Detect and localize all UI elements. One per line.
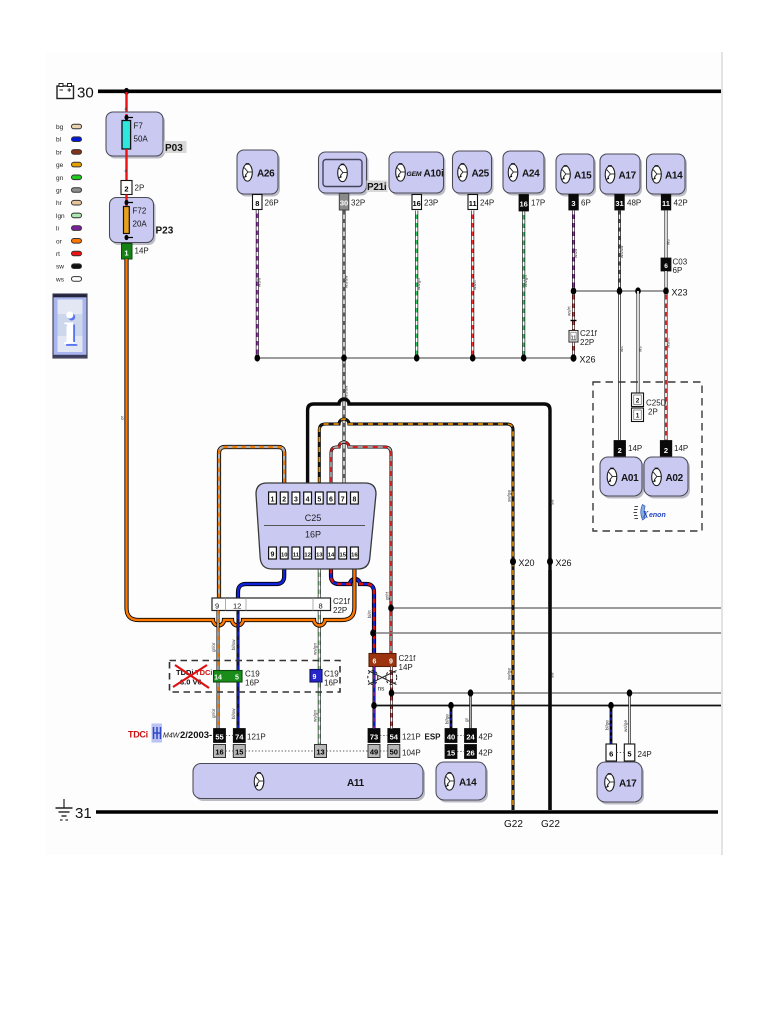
svg-text:GEM: GEM [407, 171, 422, 178]
svg-text:13: 13 [316, 748, 324, 757]
svg-text:3: 3 [294, 497, 298, 504]
component A11 [193, 764, 425, 802]
svg-text:ws/ge: ws/ge [623, 720, 628, 732]
A11 pin 55 [214, 729, 226, 743]
connector C25D 2P [632, 393, 667, 422]
pin 11 42P of A14 [661, 195, 687, 211]
wire sw/ge overlay vertical [512, 570, 515, 810]
svg-text:ws/li: ws/li [257, 278, 262, 287]
wire ws/sw P21i drop to C25 pin7 [343, 211, 348, 493]
svg-text:C25D: C25D [646, 399, 667, 408]
svg-text:17P: 17P [531, 199, 545, 208]
connector C25 16P body [256, 483, 376, 569]
svg-text:74: 74 [235, 733, 244, 742]
A14 pin 24 [457, 689, 493, 742]
svg-text:a: a [125, 106, 128, 111]
C25 pin 9 [269, 547, 277, 559]
legend color sw [56, 264, 82, 271]
svg-text:ws/gn: ws/gn [523, 275, 528, 287]
svg-text:14: 14 [214, 675, 222, 682]
svg-text:gr/or: gr/or [211, 642, 216, 652]
svg-text:9: 9 [389, 659, 393, 666]
svg-text:55: 55 [215, 733, 223, 742]
svg-text:2: 2 [124, 185, 128, 194]
svg-text:6: 6 [373, 659, 377, 666]
svg-text:16: 16 [413, 199, 421, 208]
svg-text:gn: gn [56, 175, 64, 182]
svg-text:1: 1 [124, 249, 128, 258]
svg-text:X26: X26 [580, 355, 596, 365]
svg-text:sw: sw [56, 264, 64, 271]
node X20 [510, 558, 535, 568]
wire ws X23 to C25D [638, 291, 643, 393]
connector C21f 14P brown [369, 654, 416, 673]
wire ws/rt X23 down to A02 pin [666, 291, 671, 441]
svg-text:rt: rt [56, 251, 60, 258]
wire rt bus30 to P03 [125, 92, 128, 113]
svg-text:ws/rt: ws/rt [666, 338, 671, 348]
fuse F72 20A [124, 207, 148, 234]
svg-text:2: 2 [618, 446, 622, 455]
svg-text:121P: 121P [247, 733, 266, 742]
C25 pin 3 [292, 492, 300, 504]
C25 pin 16 [351, 547, 359, 559]
node line X23 [571, 287, 688, 297]
A14 pin 26 [457, 745, 493, 759]
svg-text:ws/sw: ws/sw [619, 245, 624, 258]
wire gr/or loop C25 pin2 to strip pin9 [219, 447, 284, 598]
svg-text:50A: 50A [134, 135, 149, 144]
svg-text:bg: bg [56, 124, 64, 131]
svg-text:6P: 6P [581, 199, 591, 208]
C25 pin 7 [339, 492, 347, 504]
wire sw C25 pin4 to G22 [308, 399, 555, 810]
wire ws/gn A10i drop [416, 211, 421, 359]
A14 pin 15 [445, 745, 457, 759]
legend color ge [56, 162, 82, 169]
svg-text:i: i [63, 303, 76, 355]
svg-text:A24: A24 [522, 169, 540, 180]
svg-text:C21f: C21f [580, 329, 598, 338]
svg-text:ESP: ESP [425, 733, 442, 742]
svg-text:50: 50 [390, 748, 398, 757]
component A26 [237, 150, 280, 197]
svg-text:73: 73 [370, 733, 378, 742]
component A02 [644, 457, 690, 499]
svg-text:49: 49 [370, 748, 378, 757]
C25 pin 6 [327, 492, 335, 504]
svg-text:ws/gn: ws/gn [313, 643, 318, 655]
C25 pin 2 [280, 492, 288, 504]
svg-text:a: a [125, 168, 128, 173]
connector 2 2P [121, 181, 144, 195]
svg-text:A17: A17 [619, 779, 637, 790]
svg-text:bl: bl [56, 137, 62, 144]
svg-text:ws: ws [638, 346, 643, 352]
svg-text:24P: 24P [480, 199, 494, 208]
bus line 31 [96, 810, 718, 814]
svg-text:G22: G22 [541, 819, 560, 830]
connector C19 16P green [214, 670, 261, 688]
svg-text:1: 1 [636, 413, 640, 420]
svg-text:enon: enon [649, 512, 666, 519]
dotted links A11 gray row + label 104P [226, 749, 421, 758]
svg-text:P21i: P21i [367, 182, 387, 193]
A11 pin 49 [368, 745, 380, 758]
svg-text:C21f: C21f [399, 654, 417, 663]
legend color lgn [56, 213, 82, 220]
svg-text:ws/sw: ws/sw [343, 275, 348, 288]
legend color hr [56, 200, 82, 207]
svg-text:li: li [56, 226, 59, 233]
wire ws/li A15 drop to X23 [573, 211, 578, 292]
page margin line right [721, 52, 723, 855]
svg-text:2: 2 [282, 497, 286, 504]
svg-text:2/2003-: 2/2003- [180, 730, 212, 741]
pin 8 26P of A26 [253, 195, 279, 210]
C25 pin 11 [292, 547, 300, 559]
connector C19 16P blue pin9 [310, 670, 339, 688]
svg-text:9: 9 [313, 674, 317, 681]
wire or P23 to C25 pin16 [120, 259, 355, 626]
svg-text:A11: A11 [347, 778, 365, 789]
component A17 top [600, 154, 642, 197]
legend color br [56, 149, 82, 156]
svg-text:gr: gr [56, 188, 63, 195]
wire bl C25 pin10 to strip pin12 [238, 560, 284, 598]
A17 pin 6 [605, 702, 617, 761]
svg-text:5: 5 [317, 497, 321, 504]
A11 pin 73 [368, 729, 380, 743]
pin 31 48P of A17 [615, 195, 641, 211]
component A14 bottom [436, 762, 488, 803]
svg-text:11: 11 [469, 199, 477, 208]
legend color bl [56, 137, 82, 144]
svg-text:16P: 16P [305, 530, 321, 540]
svg-text:14P: 14P [628, 444, 642, 453]
wire ws/rt A15 X23 to X26 via C21f [567, 291, 577, 358]
svg-text:ws/gn: ws/gn [313, 710, 318, 722]
A11 pin 54 [388, 729, 400, 743]
svg-text:A14: A14 [665, 171, 683, 182]
pin 16 23P of A10i [412, 195, 438, 210]
connector C21f 22P inline on A15 wire [569, 329, 598, 347]
junction node on bus 30 [124, 88, 129, 95]
svg-text:31: 31 [75, 805, 92, 822]
svg-text:6: 6 [664, 263, 668, 270]
svg-text:P03: P03 [165, 143, 183, 154]
svg-text:42P: 42P [674, 199, 688, 208]
svg-text:22P: 22P [333, 606, 347, 615]
svg-text:sw/ge: sw/ge [507, 490, 512, 502]
A11 pin 15 [233, 745, 245, 758]
svg-text:2P: 2P [648, 408, 658, 417]
drawing area tint [46, 52, 722, 855]
C25 pin 5 [315, 492, 323, 504]
wire ws/rt A25 drop [472, 211, 477, 359]
component A14 top [647, 154, 688, 197]
component A17 bottom [597, 762, 644, 805]
C25 pin 15 [339, 547, 347, 559]
svg-text:ns: ns [378, 686, 386, 693]
C25 pin 1 [269, 492, 277, 504]
C25 pin 12 [304, 547, 312, 559]
node X26 lower [547, 558, 572, 568]
svg-text:2: 2 [664, 446, 668, 455]
svg-text:M4W: M4W [163, 733, 181, 740]
pin 11 24P of A25 [468, 195, 494, 210]
svg-text:A15: A15 [574, 171, 592, 182]
svg-text:G22: G22 [504, 819, 523, 830]
wire lgn C25 pin13 down to A11 pin13 [313, 560, 320, 745]
svg-text:bl/sw: bl/sw [231, 639, 236, 650]
svg-text:ws: ws [55, 276, 65, 283]
dashed option box TDDi/TDCi 3.0 V6 [170, 661, 341, 693]
svg-text:A02: A02 [666, 473, 684, 484]
svg-text:bl/sw: bl/sw [231, 708, 236, 719]
fuse box P23 [110, 195, 156, 246]
svg-text:sw/ge: sw/ge [507, 668, 512, 680]
svg-text:16P: 16P [245, 679, 259, 688]
svg-text:14P: 14P [399, 663, 413, 672]
svg-text:30: 30 [340, 199, 348, 208]
svg-text:A10i: A10i [424, 169, 444, 180]
wire ws A17 X23 down to A01 pin [619, 291, 624, 441]
wire bl C21f pin6 to A11 pin73 [373, 667, 376, 729]
svg-text:6: 6 [329, 497, 333, 504]
A11 pin 50 [388, 745, 400, 758]
component A15 [556, 154, 596, 197]
svg-text:hr: hr [56, 200, 63, 207]
ground symbol [56, 799, 73, 820]
svg-text:8: 8 [352, 497, 356, 504]
svg-text:F72: F72 [133, 207, 147, 216]
svg-text:30: 30 [77, 85, 94, 102]
stub line y633 to edge [370, 629, 721, 636]
pin 16 17P of A24 [519, 195, 545, 212]
fuse F7 50A [122, 121, 148, 150]
wire sw/ge C25 pin5 to G22 [319, 419, 513, 810]
svg-text:7: 7 [341, 497, 345, 504]
component P21i [319, 152, 388, 196]
svg-text:26: 26 [466, 749, 474, 758]
stub line y705.5 black to edge [371, 702, 721, 709]
A11 pin 16 [214, 745, 226, 758]
svg-text:11: 11 [662, 199, 670, 208]
wire ws/li A26 drop [257, 210, 262, 359]
svg-text:9: 9 [215, 602, 219, 611]
svg-text:104P: 104P [402, 749, 421, 758]
bus line 30 [98, 90, 721, 94]
label 121P right [380, 733, 421, 742]
svg-text:X23: X23 [672, 288, 688, 298]
svg-text:16: 16 [520, 200, 528, 209]
svg-text:26P: 26P [265, 199, 279, 208]
C25 pin 13 [315, 547, 323, 559]
svg-text:bl/ge: bl/ge [605, 720, 610, 730]
A11 pin 74 [233, 729, 245, 743]
svg-text:ws: ws [666, 239, 671, 245]
C25 pin 14 [327, 547, 335, 559]
legend color li [56, 226, 82, 233]
legend color rt [56, 251, 82, 258]
connector C03 6P [661, 258, 688, 276]
stub line y693 to edge [389, 689, 721, 696]
svg-text:TDCi: TDCi [195, 668, 213, 677]
wire ws C03 to X23 [665, 271, 668, 291]
A02 pin 2 14P [660, 441, 688, 458]
C25 pin 10 [280, 547, 288, 559]
svg-text:gr/or: gr/or [211, 708, 216, 718]
svg-text:23P: 23P [424, 199, 438, 208]
C25 pin 8 [351, 492, 359, 504]
svg-text:6P: 6P [673, 266, 683, 275]
svg-text:2P: 2P [135, 184, 145, 193]
svg-text:A25: A25 [472, 169, 490, 180]
component A10i with GEM [389, 152, 446, 196]
wire bl/rt C25 pin14 to C21f pin6 [331, 560, 374, 654]
svg-text:ws/sw: ws/sw [343, 385, 348, 398]
svg-text:lgn: lgn [56, 213, 65, 220]
svg-text:ws: ws [619, 346, 624, 352]
component A01 [600, 457, 644, 499]
svg-text:1: 1 [271, 497, 275, 504]
dashed xenon option box [593, 382, 702, 531]
xenon logo [634, 505, 666, 521]
svg-text:ws/li: ws/li [573, 249, 578, 258]
wire ws/rt C21f pin9 to A11 pin54 [390, 667, 393, 729]
legend color gr [56, 188, 82, 195]
svg-text:3: 3 [571, 199, 575, 208]
wire gr/rt C25 pin6 to C21f pin9 [331, 442, 391, 654]
wire gr/or strip pin9 to A11 pin55 [211, 611, 218, 730]
svg-text:8: 8 [255, 199, 259, 208]
A01 pin 2 14P [614, 441, 642, 458]
svg-text:48P: 48P [627, 199, 641, 208]
svg-text:5: 5 [235, 675, 239, 682]
wire ws/gn A24 drop [523, 211, 528, 358]
svg-text:24P: 24P [638, 750, 652, 759]
legend color or [56, 238, 82, 245]
svg-text:F7: F7 [134, 122, 144, 131]
svg-text:11: 11 [293, 553, 300, 559]
svg-text:TDCi: TDCi [128, 730, 148, 740]
svg-text:20A: 20A [133, 220, 148, 229]
svg-text:2: 2 [636, 398, 640, 405]
svg-text:gr: gr [464, 717, 469, 722]
connector 1 14P green [122, 244, 149, 260]
svg-text:9: 9 [271, 552, 275, 559]
connector strip C21f 22P [212, 597, 351, 615]
pin 30 32P of P21i [339, 194, 365, 211]
svg-text:4: 4 [306, 497, 310, 504]
svg-text:22P: 22P [580, 338, 594, 347]
svg-text:12: 12 [233, 602, 241, 611]
svg-text:C21f: C21f [333, 597, 351, 606]
svg-text:X20: X20 [519, 558, 535, 568]
legend color ws [55, 276, 82, 283]
svg-text:14: 14 [328, 553, 335, 559]
svg-text:ws/gn: ws/gn [416, 278, 421, 290]
svg-text:31: 31 [615, 199, 623, 208]
svg-text:A14: A14 [459, 778, 477, 789]
label 121P left [226, 733, 266, 742]
svg-text:14P: 14P [135, 247, 149, 256]
svg-text:12: 12 [304, 553, 310, 559]
engine variant TDCi label row [128, 724, 212, 743]
svg-text:16: 16 [215, 748, 223, 757]
svg-text:or: or [56, 238, 63, 245]
svg-text:11: 11 [571, 336, 577, 342]
wire rt P03 to connector 2 [125, 149, 128, 181]
svg-text:C19: C19 [245, 670, 260, 679]
svg-text:42P: 42P [479, 733, 493, 742]
label P03 [164, 141, 187, 154]
C25 pin 4 [304, 492, 312, 504]
svg-text:sw: sw [550, 499, 555, 505]
A14 pin 40 [445, 702, 458, 743]
svg-text:42P: 42P [479, 749, 493, 758]
svg-text:14P: 14P [674, 444, 688, 453]
svg-text:ge: ge [56, 162, 64, 169]
svg-text:54: 54 [390, 733, 399, 742]
svg-text:or: or [120, 415, 125, 420]
svg-text:10: 10 [281, 553, 287, 559]
svg-text:X26: X26 [556, 558, 572, 568]
wire ws A14 drop to C03 [666, 211, 671, 259]
stub line y608 to edge [388, 604, 721, 611]
svg-text:16P: 16P [324, 679, 338, 688]
A17 pin 5 [617, 689, 652, 761]
wire bl/sw strip pin12 to A11 pin74 [231, 611, 238, 730]
svg-text:P23: P23 [156, 226, 174, 237]
svg-text:6: 6 [609, 750, 613, 759]
bus node line X26 [254, 354, 595, 364]
twisted pair symbol ns [368, 671, 397, 693]
svg-text:ws/rt: ws/rt [567, 306, 572, 316]
battery symbol [57, 84, 74, 99]
svg-text:C19: C19 [324, 670, 339, 679]
svg-text:gr/rt: gr/rt [385, 591, 390, 600]
svg-text:8: 8 [319, 602, 323, 611]
svg-text:15: 15 [447, 749, 455, 758]
component A24 [503, 151, 546, 196]
wire ws/sw A17 drop to X23 [619, 211, 624, 292]
component A25 [453, 151, 494, 196]
A11 pin 13 [315, 745, 327, 758]
svg-text:15: 15 [339, 553, 346, 559]
svg-text:13: 13 [316, 553, 323, 559]
svg-text:A01: A01 [621, 473, 639, 484]
svg-text:bl/ge: bl/ge [445, 714, 450, 724]
svg-text:15: 15 [235, 748, 243, 757]
svg-text:121P: 121P [402, 733, 421, 742]
legend color gn [56, 175, 82, 182]
svg-text:24: 24 [466, 733, 475, 742]
svg-text:br: br [56, 149, 63, 156]
svg-text:bl/rt: bl/rt [367, 610, 372, 618]
svg-text:32P: 32P [351, 199, 365, 208]
info icon [53, 294, 87, 358]
svg-text:40: 40 [447, 733, 455, 742]
wire sw overlay vertical [548, 570, 551, 810]
legend color bg [56, 124, 82, 131]
svg-text:C25: C25 [305, 513, 322, 523]
svg-text:16: 16 [351, 553, 358, 559]
svg-text:ws/rt: ws/rt [472, 280, 477, 290]
svg-text:5: 5 [627, 750, 631, 759]
pin 3 6P of A15 [569, 195, 591, 211]
